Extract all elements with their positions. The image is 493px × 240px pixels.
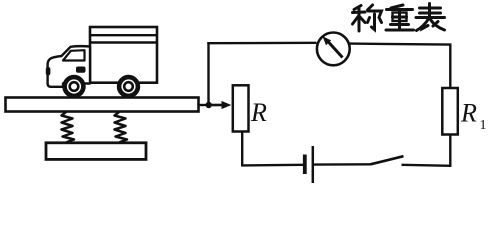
rail battery to switch pivot (314, 163, 372, 166)
base block (46, 143, 146, 160)
front light (dark) (46, 67, 51, 76)
char 称 (353, 5, 382, 31)
svg-text:R: R (460, 99, 477, 128)
battery long thin plate (312, 146, 315, 183)
rail left segment (242, 164, 303, 167)
door window (dark) (76, 67, 86, 73)
windshield window (63, 50, 85, 60)
char 重 (386, 5, 414, 30)
junction node dot (206, 102, 212, 108)
spring right (115, 112, 128, 142)
bottom rail right of switch (402, 165, 452, 166)
front wheel (65, 77, 84, 96)
wire junction up (207, 42, 209, 105)
spring left (62, 112, 75, 142)
weighing platform (6, 98, 199, 112)
rear wheel (119, 77, 138, 96)
wire R1 down to bottom rail (449, 135, 451, 168)
resistor R (rheostat body) (233, 85, 249, 131)
meter 称重表 circle (317, 33, 350, 66)
wire top left to meter (207, 42, 316, 45)
meter needle (323, 36, 343, 57)
battery short thick plate (303, 155, 307, 175)
wire right down to R1 (449, 45, 451, 89)
switch blade (371, 156, 404, 164)
char 表 (416, 4, 445, 31)
label 称重表 (drawn strokes) (353, 4, 445, 32)
truck cargo box (90, 27, 157, 83)
slider arrow into R (209, 101, 232, 109)
wire meter to top right corner (350, 44, 452, 45)
resistor R1 (442, 88, 458, 135)
truck cab (46, 46, 90, 87)
svg-text:1: 1 (480, 118, 487, 133)
svg-text:R: R (250, 98, 267, 127)
wire platform to junction (199, 104, 210, 106)
wire R bottom down (241, 133, 243, 167)
